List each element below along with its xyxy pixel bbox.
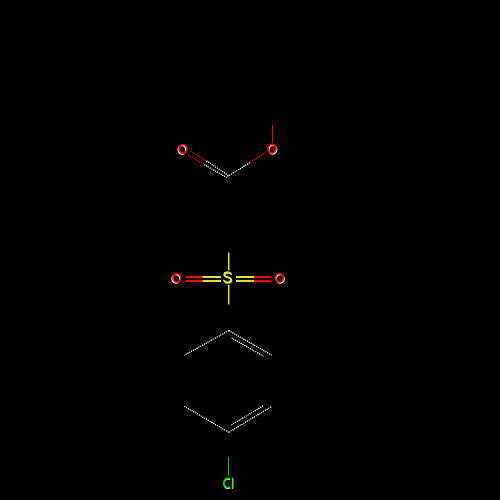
- bond C=O lower line white half: [204, 165, 227, 178]
- ring bond C4-C5: [184, 406, 228, 432]
- atom O (sulfonyl left): [172, 274, 181, 283]
- atom O (sulfonyl right): [276, 274, 285, 283]
- atom S (sulfonyl): [224, 272, 232, 283]
- bond S=O right yellow half: [236, 280, 254, 282]
- bond S=O right red half: [254, 280, 272, 282]
- bond S=O right red half: [254, 276, 272, 278]
- bond O-CH3 (red half, methyl above): [271, 125, 273, 142]
- atom O (ester): [268, 144, 277, 153]
- bond S=O left yellow half: [203, 280, 221, 282]
- bond S-C1 yellow half (down): [228, 285, 230, 304]
- ring bond C1-C2 outer: [229, 331, 272, 356]
- bond O(ester)-C red half: [250, 153, 266, 163]
- atom Cl: [224, 478, 233, 489]
- bond C=O upper line red half: [191, 151, 207, 161]
- bond C4-Cl green half: [228, 457, 230, 476]
- bond C=O upper line white half: [206, 161, 228, 176]
- bond O(ester)-C white half: [228, 163, 250, 177]
- ring bond C4=C3 inner: [231, 406, 263, 425]
- bond CH2-S yellow half (up): [228, 252, 230, 270]
- atom O (carbonyl): [178, 145, 187, 154]
- ring bond C1=C2 inner: [232, 338, 264, 356]
- bond S=O left yellow half: [203, 276, 221, 278]
- ring bond C1-C6: [184, 331, 228, 356]
- bond C=O lower line red half: [188, 155, 204, 165]
- ring bond C4-C3 outer: [229, 406, 272, 432]
- bond S=O left red half: [185, 276, 202, 278]
- bond S=O left red half: [185, 280, 202, 282]
- bond S=O right yellow half: [236, 276, 254, 278]
